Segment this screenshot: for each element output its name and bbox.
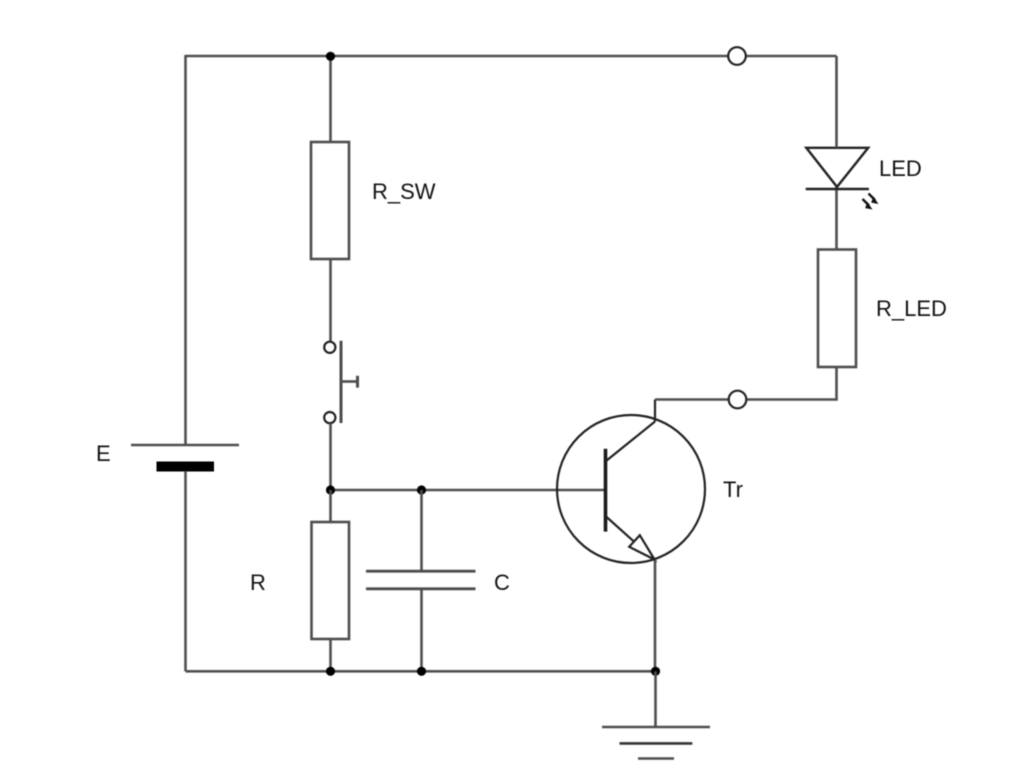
wire C bottom lead: [420, 589, 423, 672]
wire bottom rail: [186, 670, 656, 673]
capacitor C: [366, 571, 476, 589]
ground: [602, 727, 710, 759]
terminal circle collector: [729, 391, 747, 409]
node emitter bottom: [651, 667, 660, 676]
resistor R_LED: [818, 250, 856, 368]
wire R_SW top lead: [329, 56, 332, 142]
node base mid: [417, 485, 426, 494]
wire left rail lower: [184, 471, 187, 671]
node junction top: [326, 52, 335, 61]
battery E: [131, 445, 239, 472]
node bottom R: [326, 667, 335, 676]
wire left rail upper: [184, 55, 187, 445]
svg-text:E: E: [96, 441, 111, 466]
node base left: [326, 485, 335, 494]
svg-text:C: C: [494, 570, 510, 595]
svg-text:R_LED: R_LED: [876, 296, 947, 321]
wire R top lead: [329, 490, 332, 522]
wire switch to base node: [329, 423, 332, 490]
transistor Tr: [557, 400, 705, 564]
node bottom C: [417, 667, 426, 676]
svg-text:Tr: Tr: [723, 477, 743, 502]
wire base rail: [331, 489, 605, 492]
wire R_LED bottom lead: [835, 367, 838, 401]
wire right rail top: [835, 56, 838, 148]
resistor R: [312, 522, 350, 639]
LED diode: [806, 148, 879, 210]
wire ground stem: [654, 671, 657, 727]
svg-text:LED: LED: [879, 156, 922, 181]
resistor R_SW: [311, 142, 349, 259]
wire C top lead: [420, 490, 423, 571]
wire emitter down: [654, 560, 657, 671]
svg-text:R_SW: R_SW: [372, 179, 436, 204]
terminal circle top: [728, 47, 746, 65]
wire R_SW bottom lead: [329, 259, 332, 341]
switch SW: [324, 341, 357, 424]
wire R bottom lead: [329, 639, 332, 671]
svg-text:R: R: [250, 570, 266, 595]
wire LED to R_LED: [835, 187, 838, 250]
wire collector rail: [655, 398, 837, 401]
wire top rail: [186, 55, 837, 58]
